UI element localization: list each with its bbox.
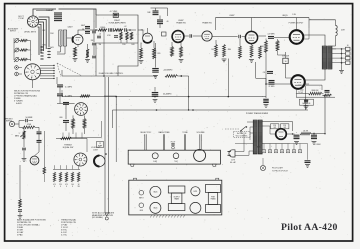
svg-text:220K: 220K <box>122 44 126 46</box>
fuse F1 <box>105 213 109 216</box>
capacitor C34 bypass <box>256 62 266 98</box>
level-set potentiometer P3 <box>15 58 19 62</box>
wire treble chain top <box>19 124 22 127</box>
wire feedback to hum <box>297 93 309 95</box>
ground R9 <box>18 215 23 217</box>
front panel foot right <box>213 164 217 166</box>
svg-text:INPUT: INPUT <box>10 31 17 33</box>
wire left drop <box>305 86 307 110</box>
capacitor C2 <box>92 30 96 32</box>
heater feed boxes V1-V7 <box>262 150 265 153</box>
resistor R21 <box>239 46 242 59</box>
svg-text:K: K <box>66 186 67 188</box>
electrolytic C23 40-40MFD <box>152 68 159 70</box>
svg-text:K: K <box>72 186 73 188</box>
capacitor C16 <box>85 31 90 33</box>
pilot lamp DS1 <box>260 165 265 170</box>
resistor R34 <box>71 172 73 182</box>
svg-text:PHASE INV: PHASE INV <box>176 21 186 24</box>
svg-text:4: 4 <box>352 54 353 56</box>
resistor R7 470K <box>22 126 35 129</box>
capacitor C22 coupling <box>212 36 238 38</box>
resistor R36 <box>43 167 45 174</box>
wire V10 plate to OPT <box>305 69 325 80</box>
svg-text:820: 820 <box>158 53 161 55</box>
wire V8 to V9 coupling <box>258 35 266 37</box>
svg-text:6EU7: 6EU7 <box>81 25 85 27</box>
svg-text:22 MFD: 22 MFD <box>268 86 275 88</box>
boost switch box <box>97 142 104 148</box>
svg-text:PHASE INV: PHASE INV <box>202 22 212 25</box>
power transformer T2 secondary <box>258 120 262 154</box>
output transformer T1 primary <box>322 46 326 69</box>
svg-text:40-40MFD: 40-40MFD <box>163 94 172 96</box>
wire ladder left <box>92 29 98 31</box>
tone amplifier box U1 <box>96 15 138 43</box>
wire long bus <box>113 109 309 111</box>
svg-text:MIC: MIC <box>43 30 47 32</box>
svg-text:1.2H: 1.2H <box>292 14 296 16</box>
resistor R19 1M <box>215 45 218 58</box>
wire selector column <box>56 77 58 84</box>
svg-text:1 MEG: 1 MEG <box>100 27 106 29</box>
svg-text:BASS-TREB: BASS-TREB <box>159 131 170 134</box>
filter cap C31 <box>311 134 317 136</box>
resistor R13 <box>130 32 132 40</box>
capacitor C33 <box>97 35 101 37</box>
svg-text:1K: 1K <box>78 184 80 186</box>
level-set potentiometer P1 <box>15 39 19 43</box>
svg-text:EQUAL SW: EQUAL SW <box>63 146 74 149</box>
AC switch SW1 <box>247 121 253 123</box>
svg-text:6SN7: 6SN7 <box>229 15 235 17</box>
tube V-upper rear <box>150 186 161 197</box>
tube socket V1 (6EU7) <box>27 16 38 27</box>
ground post rear <box>139 203 144 208</box>
ground hum balance <box>305 104 307 107</box>
resistor R22 <box>250 45 253 58</box>
svg-text:K: K <box>54 186 55 188</box>
svg-text:..02: ..02 <box>124 26 127 28</box>
speaker terminal strip <box>346 47 351 50</box>
wire resistor bus <box>53 168 80 170</box>
wire V1 plate to top bus <box>33 9 56 16</box>
feedback resistor R27 <box>309 92 323 95</box>
svg-text:SELECTOR: SELECTOR <box>140 132 151 134</box>
tube V10 6BQ5 output lower <box>291 75 305 89</box>
svg-text:TO PIN #9 OF V5,V7: TO PIN #9 OF V5,V7 <box>272 170 288 172</box>
rear chassis outline <box>129 180 222 215</box>
svg-text:12AX7: 12AX7 <box>67 26 72 29</box>
svg-text:B-EQ: B-EQ <box>153 161 158 163</box>
svg-text:1K 7W: 1K 7W <box>303 131 308 133</box>
svg-text:V1: V1 <box>263 151 265 153</box>
wire 100K column <box>93 9 95 27</box>
resistor R31 <box>53 172 55 182</box>
resistor R32 <box>59 172 61 182</box>
wire box internals <box>120 30 122 32</box>
svg-text:PWR: PWR <box>211 196 215 198</box>
capacitor C20 40MFD <box>157 19 163 21</box>
resistor R14 boxed <box>162 32 167 36</box>
front panel foot left <box>131 164 135 166</box>
output transformer rear view <box>168 186 185 193</box>
resistor R9 <box>19 199 22 208</box>
capacitor C15 <box>85 26 90 28</box>
mic input jack J3 <box>15 72 19 76</box>
capacitor C25 .047MFD <box>268 36 274 38</box>
tube V9 6BQ5 output upper <box>290 30 304 44</box>
svg-text:1M: 1M <box>211 49 214 51</box>
svg-text:INPUT: INPUT <box>6 121 13 123</box>
svg-text:680: 680 <box>60 117 63 119</box>
svg-text:100KMF: 100KMF <box>46 10 54 12</box>
wire 16 ohm line <box>298 84 322 86</box>
rectifier tube rear <box>191 187 200 196</box>
svg-text:POWER TRANSFORMER: POWER TRANSFORMER <box>246 112 269 115</box>
svg-text:16: 16 <box>347 45 349 47</box>
svg-text:4.8H: 4.8H <box>341 30 345 32</box>
knob volume large <box>194 149 206 161</box>
wire box to volume line <box>95 43 97 76</box>
svg-text:T-EQ: T-EQ <box>174 161 178 163</box>
svg-text:+40/40MFD: +40/40MFD <box>163 70 173 72</box>
wire 16ohm feedback tap <box>332 48 336 50</box>
feedback network C28 <box>325 90 330 92</box>
svg-text:DUAL VOLUME CONTROL: DUAL VOLUME CONTROL <box>99 72 124 75</box>
resistor R11 <box>114 29 123 31</box>
svg-text:OUTPUT: OUTPUT <box>174 196 180 198</box>
wire plug to primary <box>235 140 244 152</box>
svg-text:1M: 1M <box>99 44 102 46</box>
svg-text:100: 100 <box>71 184 74 186</box>
wire screen taps <box>303 38 309 40</box>
svg-text:22K: 22K <box>273 125 277 127</box>
svg-text:PC/M: PC/M <box>19 18 24 20</box>
capacitor C11 <box>37 131 42 133</box>
selector switch S1 contacts <box>40 46 44 48</box>
svg-text:(NO SIGNAL): (NO SIGNAL) <box>92 216 103 219</box>
knob bass-treble <box>152 153 158 159</box>
svg-text:+330V: +330V <box>315 144 321 146</box>
capacitor C29 <box>304 99 308 101</box>
svg-text:V3: V3 <box>275 151 277 153</box>
tube socket V2 (12AX7) <box>25 64 41 80</box>
svg-text:V6: V6 <box>293 151 295 153</box>
svg-text:4.7 UMF: 4.7 UMF <box>110 11 118 13</box>
capacitor C12 <box>37 140 42 142</box>
rear chassis hatch <box>150 215 185 218</box>
wire heater vertical <box>112 110 114 128</box>
wire box right edge <box>118 43 138 76</box>
svg-text:PHO: PHO <box>50 33 54 35</box>
svg-text:5W: 5W <box>77 186 80 188</box>
tube socket V3 (12AX7) <box>75 103 88 116</box>
svg-text:CONT: CONT <box>93 149 99 151</box>
capacitor C3 <box>92 42 96 44</box>
wire output cathodes <box>285 52 287 58</box>
svg-text:6BQ5: 6BQ5 <box>153 192 157 194</box>
resistor R35 <box>77 172 79 182</box>
resistor R5 <box>72 119 75 129</box>
hum balance control R28 <box>300 99 314 105</box>
wire rectifier output <box>286 133 294 135</box>
resistor R33 <box>65 172 67 182</box>
capacitor C9 50MMF <box>15 121 25 125</box>
svg-text:60~ AC: 60~ AC <box>230 161 237 164</box>
wire level pots bus <box>30 41 32 62</box>
electrolytic C24 40-40MFD <box>152 92 159 94</box>
dual level-set pot R2b <box>63 30 66 46</box>
wire V3 area <box>57 103 75 105</box>
svg-text:LEVEL SETS: LEVEL SETS <box>24 32 37 34</box>
svg-text:50 MMF: 50 MMF <box>26 117 34 119</box>
wire tone <box>72 115 74 118</box>
hum balance line <box>296 96 335 98</box>
tube V7 6SN7b <box>202 31 212 41</box>
svg-text:8: 8 <box>352 49 353 51</box>
capacitor C8 <box>63 120 69 122</box>
svg-text:JME: JME <box>228 49 232 51</box>
wire V4 pins down <box>54 165 56 169</box>
matched pair label boxes <box>271 124 279 129</box>
svg-text:EZ81: EZ81 <box>194 191 198 193</box>
capacitor C13 <box>18 209 22 211</box>
rectifier tube V11 EZ81 <box>276 129 287 140</box>
resistor R10 1MEG <box>98 29 107 31</box>
filter resistor R29 <box>300 132 311 135</box>
wire bus to choke <box>308 18 310 28</box>
capacitor C19 220MMF <box>153 10 159 12</box>
wire HV secondary to rectifier <box>262 122 292 132</box>
svg-text:VOL CONTROL: VOL CONTROL <box>236 135 248 137</box>
tube V-lower rear <box>150 202 161 213</box>
resistor R12 <box>120 32 122 40</box>
filter cap C30 <box>294 134 300 136</box>
dashed mechanical link <box>225 128 240 130</box>
svg-text:1MF: 1MF <box>147 12 150 14</box>
plate resistor R15 <box>140 48 143 59</box>
pentode V5 (12AX7 half) <box>143 33 153 43</box>
capacitor C27 22MFD <box>269 80 275 82</box>
resistor R17 <box>171 47 174 57</box>
wire feedback left <box>178 75 189 77</box>
capacitor C7 <box>63 102 69 104</box>
capacitor C26 <box>267 71 273 73</box>
tube V6 6SN7 phase inverter <box>172 31 184 43</box>
triode V4b cathode follower <box>94 156 99 167</box>
capacitor C32 <box>305 160 311 162</box>
svg-text:FEED BK: FEED BK <box>312 90 320 92</box>
heater distribution bus <box>262 143 290 145</box>
wire V1 top pair <box>36 10 52 12</box>
wire cap drop <box>159 16 161 20</box>
wire treble pot down <box>23 139 25 147</box>
wire V9 plate to OPT <box>303 35 325 46</box>
wire bass ticks <box>62 133 64 139</box>
wire V1 pin leads <box>39 17 49 47</box>
wire volume drop <box>61 70 63 76</box>
svg-text:GND: GND <box>140 210 144 212</box>
wire AC line pair <box>104 77 106 213</box>
svg-text:4 AUX: 4 AUX <box>16 102 22 105</box>
wire V2 leads <box>40 65 54 67</box>
wire B+ bus <box>216 17 310 19</box>
ground terminal strip <box>341 63 343 70</box>
resistor R6 <box>83 119 86 129</box>
power transformer rear view <box>206 185 221 193</box>
power transformer T2 primary <box>253 120 257 154</box>
svg-text:Pilot AA-420: Pilot AA-420 <box>281 222 338 233</box>
wire b+ down <box>324 95 326 134</box>
svg-text:6BQ5: 6BQ5 <box>282 15 288 17</box>
tube V8 6BQ5 driver <box>245 31 257 43</box>
svg-text:V4: V4 <box>281 151 283 153</box>
svg-text:K: K <box>60 186 61 188</box>
plate resistor R16 <box>153 48 156 59</box>
svg-text:12AX7: 12AX7 <box>114 19 121 22</box>
svg-text:40: 40 <box>167 21 169 23</box>
wire V10 grid <box>266 53 291 85</box>
ground treble <box>22 158 27 160</box>
capacitor C4 <box>92 55 96 57</box>
level-set potentiometer P2 <box>15 48 19 52</box>
tube socket rear <box>190 202 201 213</box>
svg-text:PUMP: PUMP <box>98 146 102 148</box>
svg-text:.02: .02 <box>99 34 101 36</box>
resistor R18 <box>180 47 183 58</box>
dual level-set pot R2a <box>59 30 62 46</box>
wire bass box <box>70 121 102 137</box>
control shaft tone <box>183 134 185 150</box>
AC switch label box <box>234 132 251 138</box>
svg-text:.047 MFD: .047 MFD <box>267 33 275 35</box>
output transformer T1 secondary <box>328 46 332 69</box>
mic input jack J2 <box>15 66 19 70</box>
svg-text:MEG: MEG <box>15 135 20 137</box>
control shaft selector <box>144 134 146 150</box>
resistor R25 <box>276 41 279 52</box>
svg-text:470K: 470K <box>260 46 265 48</box>
capacitor C1 100KMF <box>54 12 62 14</box>
svg-text:PILOT: PILOT <box>171 142 176 144</box>
svg-text:22K: 22K <box>283 125 287 127</box>
capacitor C18 <box>124 28 126 31</box>
AC plug P1 <box>229 150 235 157</box>
svg-text:INPUT: INPUT <box>139 197 144 199</box>
svg-text:TONE: TONE <box>182 132 188 134</box>
resistor R4 <box>86 49 89 58</box>
knob tone <box>173 153 179 159</box>
control shaft bass <box>162 134 164 150</box>
wire V5 long drop <box>155 43 157 63</box>
svg-text:V2: V2 <box>269 151 271 153</box>
wire phase junction vertical <box>227 59 229 97</box>
junction dot boost <box>105 153 107 155</box>
svg-text:470: 470 <box>53 184 56 186</box>
svg-text:13: 13 <box>99 143 101 145</box>
wire under box <box>96 42 138 44</box>
capacitor C21 coupling <box>184 35 189 37</box>
svg-text:+: + <box>262 96 264 98</box>
svg-text:6BQ5: 6BQ5 <box>153 208 157 210</box>
resistor R20 <box>223 45 226 58</box>
wire V2b cathode chain <box>19 165 21 199</box>
wire ladder right <box>127 29 136 31</box>
svg-text:470K: 470K <box>27 124 32 126</box>
wire treble caps <box>38 127 40 131</box>
svg-text:5 2 KC: 5 2 KC <box>61 235 68 237</box>
resistor R24 470K <box>265 41 268 53</box>
wire bass switch line <box>56 137 87 139</box>
front panel outline <box>128 150 220 164</box>
resistor R37 <box>80 95 90 97</box>
resistor R8 1MEG pot <box>23 127 25 131</box>
svg-text:470: 470 <box>65 184 68 186</box>
phono input jack J1 <box>9 121 14 126</box>
svg-text:OIL: OIL <box>263 72 266 74</box>
svg-text:0.1 MFD: 0.1 MFD <box>65 87 73 89</box>
capacitor C6 0.1MFD <box>57 93 63 95</box>
wire left chain <box>43 131 45 167</box>
control shaft volume <box>199 134 201 149</box>
capacitor C10 <box>22 147 26 149</box>
svg-text:PILOT LIGHT: PILOT LIGHT <box>272 168 284 170</box>
resistor R38 volume line <box>165 75 178 78</box>
resistor R3 <box>74 47 77 57</box>
wire feedback vertical <box>188 76 190 110</box>
svg-text:470K: 470K <box>107 35 111 37</box>
wire C25 to V9 <box>274 37 290 39</box>
triode V1b <box>73 35 83 45</box>
tube socket V4 (12AX7) <box>74 153 87 166</box>
second volume line <box>62 96 266 98</box>
svg-text:220: 220 <box>59 184 62 186</box>
wire V5 grid <box>138 30 144 36</box>
wire V1b connections <box>67 37 73 39</box>
svg-text:10: 10 <box>284 61 286 63</box>
wire top bus to tone box <box>59 9 97 15</box>
resistor R30 <box>61 137 72 139</box>
capacitor C14 boxed <box>113 13 118 17</box>
capacitor C17 <box>108 28 110 31</box>
dashed shield line <box>57 63 82 77</box>
wire pots to switch <box>57 46 60 52</box>
svg-text:33K: 33K <box>91 40 94 42</box>
svg-text:5 PAD: 5 PAD <box>17 234 23 237</box>
triode V2b <box>30 156 39 165</box>
svg-text:100K: 100K <box>131 44 135 46</box>
wire B+ junction <box>311 133 325 135</box>
svg-text:VOLUME: VOLUME <box>197 132 206 134</box>
wire loop top <box>151 8 168 16</box>
dual volume control wire <box>62 75 157 77</box>
svg-text:V5: V5 <box>287 151 289 153</box>
svg-text:V7: V7 <box>299 151 301 153</box>
capacitor C5 0.1MFD <box>57 84 63 86</box>
resistor R26 boxed 10 <box>283 58 288 63</box>
choke L1 <box>335 20 337 26</box>
svg-text:+: + <box>296 132 298 134</box>
svg-text:TONE AMPLIFIER: TONE AMPLIFIER <box>108 22 126 25</box>
input jack rear <box>139 190 144 195</box>
ground V1b cathode <box>73 58 78 60</box>
resistor R23 <box>259 46 262 59</box>
